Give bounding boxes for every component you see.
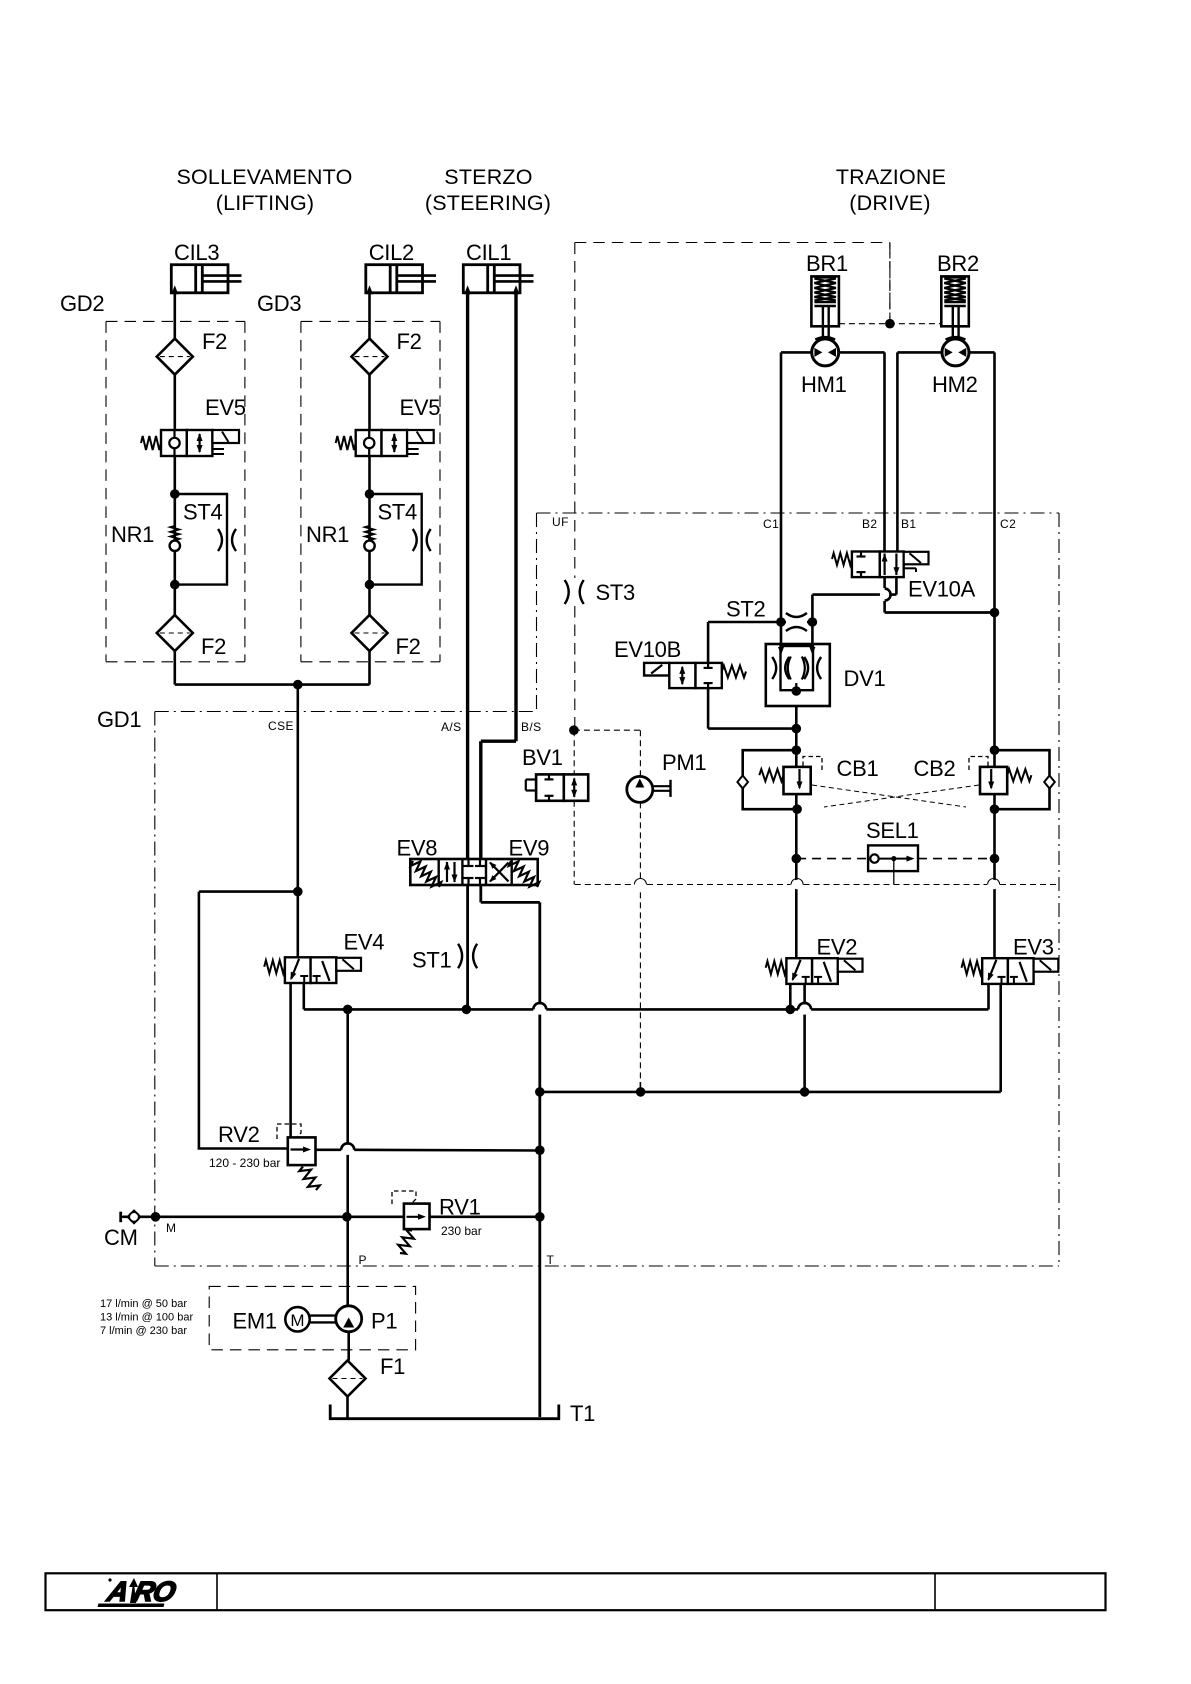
svg-text:CB1: CB1 bbox=[837, 756, 879, 781]
svg-text:CIL2: CIL2 bbox=[369, 240, 414, 265]
svg-text:SEL1: SEL1 bbox=[866, 818, 919, 843]
svg-text:7 l/min @ 230 bar: 7 l/min @ 230 bar bbox=[100, 1325, 187, 1337]
svg-text:120 - 230 bar: 120 - 230 bar bbox=[209, 1156, 280, 1170]
svg-text:B2: B2 bbox=[862, 517, 877, 531]
svg-text:ST1: ST1 bbox=[412, 948, 452, 973]
svg-text:ST4: ST4 bbox=[378, 500, 418, 525]
svg-text:HM2: HM2 bbox=[932, 372, 978, 397]
svg-text:230 bar: 230 bar bbox=[441, 1224, 482, 1238]
svg-text:17 l/min @ 50 bar: 17 l/min @ 50 bar bbox=[100, 1298, 187, 1310]
svg-text:STERZO: STERZO bbox=[444, 165, 532, 189]
svg-text:GD2: GD2 bbox=[60, 291, 104, 316]
svg-text:PM1: PM1 bbox=[662, 750, 706, 775]
svg-text:RV1: RV1 bbox=[439, 1195, 481, 1220]
svg-text:T1: T1 bbox=[570, 1401, 595, 1426]
svg-text:P: P bbox=[359, 1253, 367, 1267]
svg-text:BR2: BR2 bbox=[937, 251, 979, 276]
svg-text:A/S: A/S bbox=[441, 720, 462, 734]
svg-text:EV5: EV5 bbox=[205, 395, 246, 420]
svg-text:F2: F2 bbox=[396, 634, 421, 659]
svg-text:DV1: DV1 bbox=[844, 666, 886, 691]
svg-text:M: M bbox=[290, 1311, 304, 1330]
svg-text:BV1: BV1 bbox=[522, 745, 563, 770]
svg-text:M: M bbox=[166, 1221, 176, 1235]
svg-text:EV2: EV2 bbox=[817, 935, 858, 960]
svg-text:F1: F1 bbox=[380, 1354, 405, 1379]
svg-text:EV10B: EV10B bbox=[614, 637, 681, 662]
svg-text:EV8: EV8 bbox=[397, 836, 438, 861]
svg-text:HM1: HM1 bbox=[801, 372, 847, 397]
svg-text:RV2: RV2 bbox=[218, 1122, 260, 1147]
svg-text:UF: UF bbox=[552, 515, 569, 529]
svg-text:F2: F2 bbox=[201, 634, 226, 659]
svg-text:TRAZIONE: TRAZIONE bbox=[836, 165, 946, 189]
svg-text:NR1: NR1 bbox=[306, 522, 349, 547]
svg-text:C2: C2 bbox=[1000, 517, 1016, 531]
svg-text:SOLLEVAMENTO: SOLLEVAMENTO bbox=[176, 165, 352, 189]
svg-text:CSE: CSE bbox=[268, 719, 294, 733]
svg-text:ST3: ST3 bbox=[596, 580, 636, 605]
svg-text:EV9: EV9 bbox=[509, 836, 550, 861]
svg-text:GD3: GD3 bbox=[257, 291, 301, 316]
svg-text:C1: C1 bbox=[763, 517, 779, 531]
svg-text:F2: F2 bbox=[202, 329, 227, 354]
svg-text:ST2: ST2 bbox=[726, 597, 766, 622]
svg-text:CIL3: CIL3 bbox=[174, 240, 219, 265]
svg-text:GD1: GD1 bbox=[97, 707, 141, 732]
svg-text:(DRIVE): (DRIVE) bbox=[849, 191, 930, 215]
svg-text:EV5: EV5 bbox=[400, 395, 441, 420]
svg-text:T: T bbox=[547, 1253, 555, 1267]
svg-text:EV4: EV4 bbox=[344, 930, 385, 955]
svg-text:BR1: BR1 bbox=[806, 251, 848, 276]
svg-text:EV10A: EV10A bbox=[908, 577, 976, 602]
svg-text:CM: CM bbox=[104, 1225, 138, 1250]
svg-text:EM1: EM1 bbox=[233, 1309, 277, 1334]
svg-text:F2: F2 bbox=[397, 329, 422, 354]
svg-text:B/S: B/S bbox=[521, 720, 542, 734]
svg-text:EV3: EV3 bbox=[1013, 935, 1054, 960]
svg-text:CB2: CB2 bbox=[914, 756, 956, 781]
svg-text:NR1: NR1 bbox=[111, 522, 154, 547]
svg-text:B1: B1 bbox=[901, 517, 916, 531]
svg-text:13 l/min @ 100 bar: 13 l/min @ 100 bar bbox=[100, 1312, 193, 1324]
svg-text:ST4: ST4 bbox=[183, 500, 223, 525]
svg-text:CIL1: CIL1 bbox=[466, 240, 511, 265]
svg-text:P1: P1 bbox=[371, 1309, 397, 1334]
svg-text:(STEERING): (STEERING) bbox=[425, 191, 551, 215]
svg-text:(LIFTING): (LIFTING) bbox=[216, 191, 315, 215]
